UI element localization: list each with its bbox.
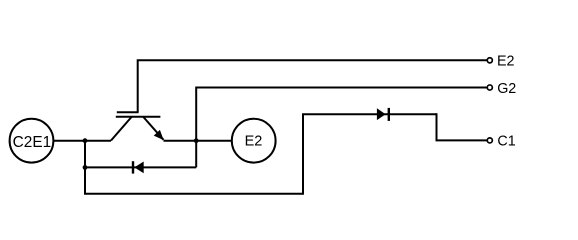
terminal C2E1 main circle — [10, 119, 54, 163]
diode D2 lower freewheel diode pointing left — [133, 161, 144, 173]
terminal G2 pin circle — [487, 85, 492, 90]
wire step down to C1 — [437, 113, 487, 140]
node junction dot at lower diode row left — [83, 165, 88, 170]
wire lower diode row — [85, 166, 196, 168]
diode D1 upper diode pointing right — [377, 108, 389, 121]
wire vertical branch from C2E1 node down — [84, 141, 86, 194]
wire vertical up to top diode row — [302, 114, 304, 195]
svg-text:E2: E2 — [245, 133, 263, 149]
node junction dot at C2E1 branch — [83, 138, 88, 143]
emitter arrowhead — [155, 131, 163, 140]
svg-text:E2: E2 — [497, 54, 515, 70]
wire G2 horizontal and vertical — [196, 88, 486, 168]
emitter lead diagonal — [143, 117, 163, 140]
terminal C1 pin circle — [487, 138, 492, 143]
node junction dot at emitter/G2 cross — [194, 138, 199, 143]
wire C2E1 to collector stub — [54, 140, 112, 142]
wire top diode row — [302, 113, 437, 115]
terminal E2 aux pin circle — [487, 58, 492, 63]
wire emitter stub to E2 main terminal — [164, 140, 232, 142]
gate plate — [117, 111, 139, 113]
terminal E2 main circle — [232, 119, 276, 163]
body bar — [116, 116, 161, 118]
wire E2 aux horizontal and gate lead vertical — [138, 60, 487, 112]
transistor Q2 IGBT — [111, 112, 164, 140]
svg-text:G2: G2 — [497, 81, 516, 97]
collector lead diagonal — [111, 117, 132, 141]
wire bottom run to diode D1 leg — [84, 193, 303, 195]
svg-text:C2E1: C2E1 — [13, 134, 52, 151]
svg-text:C1: C1 — [497, 134, 515, 150]
